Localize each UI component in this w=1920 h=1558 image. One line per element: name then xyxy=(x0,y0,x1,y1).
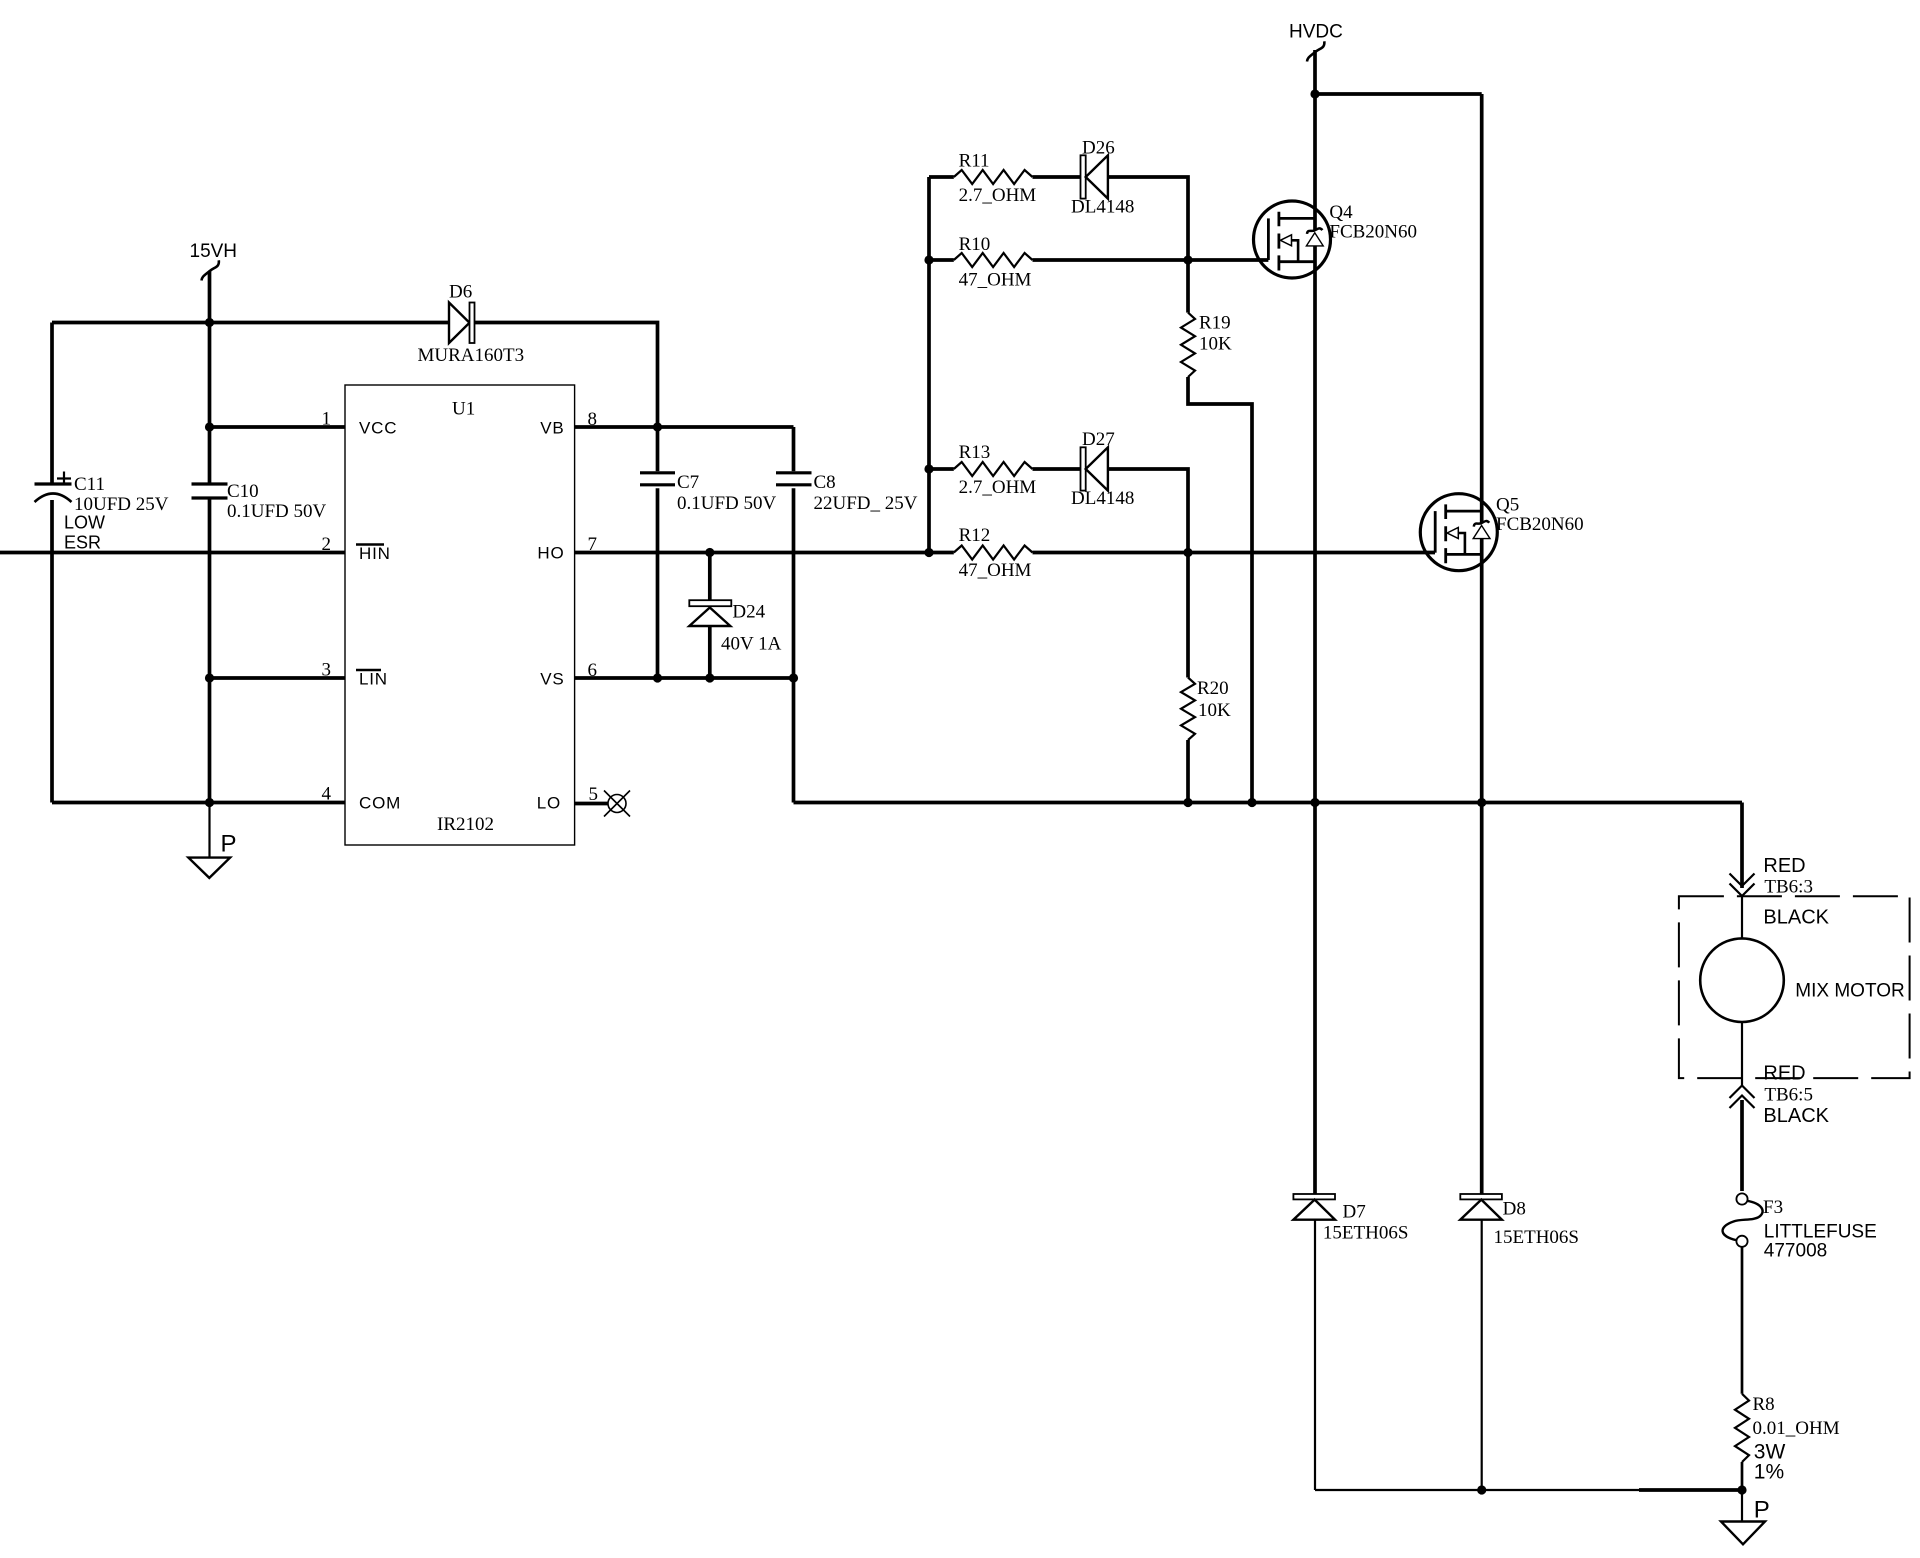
svg-text:R19: R19 xyxy=(1199,313,1231,334)
svg-text:D24: D24 xyxy=(732,602,765,623)
svg-text:COM: COM xyxy=(359,794,401,813)
svg-text:MURA160T3: MURA160T3 xyxy=(418,345,525,366)
svg-text:R8: R8 xyxy=(1753,1394,1775,1415)
svg-text:HVDC: HVDC xyxy=(1289,22,1343,43)
svg-text:R12: R12 xyxy=(959,525,991,546)
svg-text:F3: F3 xyxy=(1763,1197,1783,1218)
svg-text:4: 4 xyxy=(322,784,332,805)
svg-text:DL4148: DL4148 xyxy=(1071,488,1134,509)
svg-text:BLACK: BLACK xyxy=(1763,1105,1829,1127)
svg-text:0.1UFD 50V: 0.1UFD 50V xyxy=(227,501,327,522)
svg-text:MIX MOTOR: MIX MOTOR xyxy=(1795,981,1904,1002)
svg-text:10K: 10K xyxy=(1199,334,1232,355)
svg-text:P: P xyxy=(1754,1497,1770,1524)
svg-text:R10: R10 xyxy=(959,234,991,255)
svg-text:LITTLEFUSE: LITTLEFUSE xyxy=(1764,1221,1877,1242)
svg-text:D8: D8 xyxy=(1503,1198,1526,1219)
svg-text:ESR: ESR xyxy=(64,533,101,553)
svg-text:FCB20N60: FCB20N60 xyxy=(1496,514,1584,535)
svg-text:1: 1 xyxy=(322,409,332,430)
svg-text:C7: C7 xyxy=(677,472,699,493)
svg-text:Q5: Q5 xyxy=(1496,494,1519,515)
svg-text:15VH: 15VH xyxy=(190,241,238,262)
svg-text:5: 5 xyxy=(589,784,599,805)
svg-text:3: 3 xyxy=(322,660,332,681)
svg-text:LO: LO xyxy=(537,794,561,813)
svg-text:477008: 477008 xyxy=(1764,1241,1827,1262)
svg-text:DL4148: DL4148 xyxy=(1071,197,1134,218)
svg-text:22UFD_ 25V: 22UFD_ 25V xyxy=(814,493,918,514)
svg-text:R11: R11 xyxy=(959,151,990,172)
svg-text:D26: D26 xyxy=(1082,138,1115,159)
svg-text:15ETH06S: 15ETH06S xyxy=(1323,1223,1409,1244)
svg-text:TB6:5: TB6:5 xyxy=(1764,1085,1813,1106)
svg-text:7: 7 xyxy=(588,534,598,555)
svg-text:LOW: LOW xyxy=(64,513,105,533)
svg-text:D7: D7 xyxy=(1343,1201,1366,1222)
svg-text:HO: HO xyxy=(537,544,564,563)
svg-text:1%: 1% xyxy=(1754,1461,1784,1484)
svg-text:LIN: LIN xyxy=(359,670,388,689)
svg-text:VS: VS xyxy=(540,670,564,689)
svg-text:10K: 10K xyxy=(1198,700,1231,721)
svg-text:IR2102: IR2102 xyxy=(437,814,494,835)
svg-text:Q4: Q4 xyxy=(1329,202,1353,223)
svg-text:47_OHM: 47_OHM xyxy=(959,270,1032,291)
svg-text:47_OHM: 47_OHM xyxy=(959,560,1032,581)
svg-text:40V 1A: 40V 1A xyxy=(721,634,782,655)
svg-text:FCB20N60: FCB20N60 xyxy=(1329,222,1417,243)
svg-text:P: P xyxy=(221,831,237,858)
svg-text:VB: VB xyxy=(540,419,564,438)
svg-text:HIN: HIN xyxy=(359,544,391,563)
svg-text:TB6:3: TB6:3 xyxy=(1764,877,1813,898)
svg-text:C11: C11 xyxy=(74,474,105,495)
svg-text:6: 6 xyxy=(588,660,598,681)
svg-text:8: 8 xyxy=(588,409,598,430)
svg-text:C8: C8 xyxy=(814,472,836,493)
svg-text:2: 2 xyxy=(322,534,332,555)
svg-text:2.7_OHM: 2.7_OHM xyxy=(959,185,1037,206)
svg-text:C10: C10 xyxy=(227,481,259,502)
svg-text:RED: RED xyxy=(1763,855,1805,877)
svg-text:R20: R20 xyxy=(1197,678,1229,699)
svg-text:RED: RED xyxy=(1763,1062,1805,1084)
svg-text:U1: U1 xyxy=(452,399,475,420)
svg-text:D6: D6 xyxy=(449,282,472,303)
svg-text:0.01_OHM: 0.01_OHM xyxy=(1753,1418,1840,1439)
svg-text:2.7_OHM: 2.7_OHM xyxy=(959,477,1037,498)
svg-text:15ETH06S: 15ETH06S xyxy=(1494,1227,1580,1248)
svg-text:0.1UFD 50V: 0.1UFD 50V xyxy=(677,493,777,514)
svg-text:R13: R13 xyxy=(959,442,991,463)
svg-text:BLACK: BLACK xyxy=(1763,906,1829,928)
svg-text:VCC: VCC xyxy=(359,419,397,438)
svg-text:D27: D27 xyxy=(1082,429,1115,450)
